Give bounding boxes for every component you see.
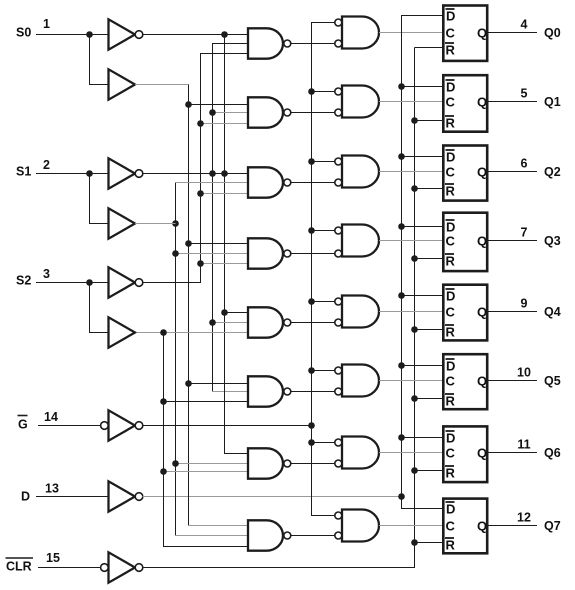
wire enable tap row 4: [312, 301, 335, 303]
node enable tap row 1: [308, 88, 315, 95]
wire D-bar bus top to row 0: [402, 16, 443, 497]
wire Q4 output (pin 9): [489, 311, 538, 313]
wire NAND0 output: [291, 43, 335, 45]
wire D-bar tap row 2: [402, 156, 443, 158]
node S2 junction: [86, 279, 93, 286]
latch Q5: [443, 354, 487, 409]
wire row4 NAND input 1: [213, 322, 249, 324]
svg-text:D: D: [21, 490, 30, 504]
wire R-bar tap row 3: [415, 258, 443, 260]
wire D-bar tap row 1: [402, 86, 443, 88]
svg-text:R: R: [446, 43, 456, 58]
wire S0 input: [36, 34, 109, 36]
wire D-bar tap row 4: [402, 295, 443, 297]
svg-text:Q7: Q7: [544, 519, 561, 533]
svg-text:S1: S1: [16, 165, 31, 179]
NAND gate row 4: [248, 307, 283, 337]
wire R-bar tap row 2: [415, 188, 443, 190]
svg-text:S2: S2: [16, 274, 31, 288]
svg-text:G: G: [18, 418, 28, 432]
wire D-bar bus bottom to row 7: [402, 497, 443, 509]
wire row3 NAND input 1: [176, 253, 249, 255]
wire enable tap row 3: [312, 230, 335, 232]
svg-text:R: R: [446, 184, 456, 199]
node enable tap row 5: [308, 367, 315, 374]
node S1 junction: [86, 170, 93, 177]
and-gate with inverted inputs, row 2: [342, 156, 379, 188]
node enable tap row 2: [308, 158, 315, 165]
wire enable tap row 2: [312, 161, 335, 163]
wire R-bar bus top to row 0: [415, 47, 443, 49]
node bus junction dots: [160, 329, 167, 336]
svg-text:D: D: [446, 9, 455, 24]
inverter S0: [109, 19, 136, 49]
wire CLR distribution: [142, 48, 414, 568]
wire Q2 output (pin 6): [489, 171, 538, 173]
NAND gate row 3: [248, 238, 283, 268]
svg-text:Q: Q: [477, 374, 487, 389]
latch Q1: [443, 75, 487, 132]
latch Q6: [443, 426, 487, 482]
svg-text:Q: Q: [477, 305, 487, 320]
node R-bar tap row 2: [411, 185, 418, 192]
wire R-bar tap row 6: [415, 470, 443, 472]
latch Q2: [443, 146, 487, 201]
node D-bar tap row 1: [398, 83, 405, 90]
svg-text:C: C: [446, 95, 456, 110]
wire G input: [38, 425, 101, 427]
wire Q1 output (pin 5): [489, 101, 538, 103]
svg-text:C: C: [446, 165, 456, 180]
svg-text:D: D: [446, 150, 455, 165]
svg-text:Q: Q: [477, 446, 487, 461]
wire C row 1: [379, 101, 442, 103]
wire CLR input: [38, 567, 101, 569]
wire row6 NAND input 1: [176, 463, 249, 465]
wire enable tap row 6: [312, 442, 335, 444]
node enable tap row 4: [308, 298, 315, 305]
svg-text:Q6: Q6: [544, 446, 561, 460]
inverter S2: [109, 267, 136, 297]
wire NAND3 output: [291, 253, 335, 255]
svg-text:C: C: [446, 374, 456, 389]
wire D-bar tap row 6: [402, 437, 443, 439]
svg-text:6: 6: [521, 157, 528, 171]
wire NAND4 output: [291, 322, 335, 324]
wire enable tap row 1: [312, 91, 335, 93]
svg-text:14: 14: [44, 410, 58, 424]
svg-text:C: C: [446, 26, 456, 41]
svg-text:Q3: Q3: [544, 234, 561, 248]
NAND gate row 7: [248, 520, 283, 550]
svg-text:5: 5: [521, 87, 528, 101]
svg-text:R: R: [446, 254, 456, 269]
node D-bar tap row 6: [398, 434, 405, 441]
wire S2 buffer output to row4: [137, 332, 249, 334]
node enable tap row 6: [308, 439, 315, 446]
svg-text:11: 11: [517, 438, 530, 452]
svg-text:S0: S0: [16, 26, 31, 40]
wire Q3 output (pin 7): [489, 240, 538, 242]
wire D-bar tap row 5: [402, 365, 443, 367]
wire NAND6 output: [291, 463, 335, 465]
wire row4 NAND input 0: [225, 312, 249, 314]
and-gate with inverted inputs, row 6: [342, 437, 379, 469]
wire D input: [36, 496, 109, 498]
wire S2 to buffer: [90, 283, 109, 333]
svg-text:CLR: CLR: [6, 560, 32, 574]
svg-text:Q: Q: [477, 26, 487, 41]
wire S0 to buffer: [90, 35, 109, 85]
node D junction on data bus: [398, 493, 405, 500]
svg-text:7: 7: [521, 226, 528, 240]
wire NAND7 output: [291, 535, 335, 537]
wire Q6 output (pin 11): [489, 452, 538, 454]
NAND gate row 5: [248, 376, 283, 406]
svg-text:15: 15: [46, 551, 60, 565]
wire R-bar tap row 4: [415, 329, 443, 331]
svg-text:D: D: [446, 431, 455, 446]
svg-text:12: 12: [517, 511, 531, 525]
NAND gate row 1: [248, 97, 283, 127]
wire row1 NAND input 1: [213, 112, 249, 114]
and-gate with inverted inputs, row 1: [342, 86, 379, 118]
wire row2 NAND input 1: [176, 182, 249, 184]
wire C row 3: [379, 240, 442, 242]
svg-text:D: D: [446, 80, 455, 95]
svg-text:C: C: [446, 519, 456, 534]
wire S0 bus bottom corner: [189, 525, 249, 527]
node G junction on enable bus: [308, 422, 315, 429]
node R-bar tap row 3: [411, 255, 418, 262]
buffer S1: [109, 208, 136, 238]
wire row5 NAND mid input: [213, 391, 249, 393]
svg-text:D: D: [446, 359, 455, 374]
latch Q3: [443, 213, 487, 271]
svg-text:2: 2: [43, 158, 50, 172]
wire C row 2: [379, 171, 442, 173]
wire D-bar tap row 3: [402, 226, 443, 228]
svg-text:9: 9: [521, 297, 528, 311]
node R-bar tap row 5: [411, 395, 418, 402]
wire D distribution: [142, 496, 401, 498]
NAND gate row 6: [248, 448, 283, 478]
wire R-bar tap row 7: [415, 542, 443, 544]
node D-bar tap row 3: [398, 223, 405, 230]
wire NS1 bus (S1 inverted): [213, 44, 249, 392]
wire S1 input: [36, 173, 109, 175]
node enable tap row 3: [308, 227, 315, 234]
wire row6 NAND input 2: [164, 471, 249, 473]
inverter CLR: [109, 552, 136, 582]
wire row2 NAND input 2: [201, 193, 249, 195]
wire row5 NAND input 2: [164, 401, 249, 403]
latch Q0: [443, 6, 487, 61]
wire Q0 output (pin 4): [489, 32, 538, 34]
latch Q7: [443, 499, 487, 554]
svg-text:C: C: [446, 446, 456, 461]
wire S0 bus vertical: [188, 85, 190, 526]
svg-text:10: 10: [517, 366, 531, 380]
wire row5 NAND input 0: [189, 383, 249, 385]
svg-text:D: D: [446, 289, 455, 304]
wire row3 NAND input 0: [189, 243, 249, 245]
svg-text:Q2: Q2: [544, 165, 561, 179]
and-gate with inverted inputs, row 3: [342, 225, 379, 257]
node D-bar tap row 4: [398, 292, 405, 299]
inverter S1: [109, 158, 136, 188]
svg-text:R: R: [446, 116, 456, 131]
svg-text:R: R: [446, 466, 456, 481]
wire row1 NAND input 2: [201, 123, 249, 125]
node R-bar tap row 6: [411, 467, 418, 474]
NAND gate row 0: [248, 28, 283, 58]
and-gate with inverted inputs, row 7: [342, 510, 379, 542]
node R-bar tap row 4: [411, 326, 418, 333]
svg-text:R: R: [446, 538, 456, 553]
buffer S2: [109, 317, 136, 347]
wire G distribution: [142, 425, 311, 427]
node R-bar tap row 1: [411, 117, 418, 124]
svg-text:C: C: [446, 234, 456, 249]
node S0 junction: [86, 31, 93, 38]
and-gate with inverted inputs, row 5: [342, 365, 379, 397]
svg-text:4: 4: [521, 18, 528, 32]
svg-text:Q5: Q5: [544, 374, 561, 388]
wire NS0 bus vertical: [225, 35, 249, 454]
svg-text:Q: Q: [477, 234, 487, 249]
wire C row 5: [379, 380, 442, 382]
svg-text:3: 3: [43, 267, 50, 281]
svg-text:Q1: Q1: [544, 95, 561, 109]
svg-text:1: 1: [43, 17, 50, 31]
wire enable tap row 5: [312, 370, 335, 372]
and-gate with inverted inputs, row 0: [342, 17, 379, 49]
svg-text:D: D: [446, 502, 455, 517]
node R-bar tap row 7: [411, 539, 418, 546]
wire C row 6: [379, 452, 442, 454]
wire R-bar tap row 5: [415, 398, 443, 400]
wire enable bus: [312, 23, 336, 516]
svg-text:Q: Q: [477, 165, 487, 180]
node D-bar tap row 2: [398, 153, 405, 160]
wire S2 input: [36, 282, 109, 284]
svg-text:Q: Q: [477, 519, 487, 534]
wire S1 buffer output: [135, 223, 176, 225]
and-gate with inverted inputs, row 4: [342, 296, 379, 328]
wire S0 buffer output: [135, 84, 189, 86]
buffer S0: [109, 69, 136, 99]
wire NAND2 output: [291, 182, 335, 184]
wire row3 NAND input 2: [201, 263, 249, 265]
wire Q7 output (pin 12): [489, 525, 538, 527]
wire row1 NAND input 0: [189, 104, 249, 106]
svg-text:D: D: [446, 220, 455, 235]
wire S1 bus vertical: [175, 183, 177, 536]
svg-text:C: C: [446, 305, 456, 320]
wire NAND1 output: [291, 112, 335, 114]
node D-bar tap row 5: [398, 362, 405, 369]
svg-text:Q: Q: [477, 95, 487, 110]
inverter D: [109, 481, 136, 511]
latch Q4: [443, 285, 487, 341]
wire S1 bus bottom corner: [176, 535, 249, 537]
wire S1 inverter output to row2: [142, 173, 248, 175]
wire Q5 output (pin 10): [489, 380, 538, 382]
svg-text:Q0: Q0: [544, 26, 561, 40]
svg-text:13: 13: [45, 482, 59, 496]
svg-text:Q4: Q4: [544, 305, 561, 319]
wire NAND5 output: [291, 391, 335, 393]
wire C row 0: [379, 32, 442, 34]
wire NS0 inverter output to row0: [142, 34, 248, 36]
wire R-bar tap row 1: [415, 120, 443, 122]
wire NS2 bus (S2 inverted): [142, 54, 248, 283]
wire S2 bus: [164, 333, 249, 547]
wire S1 bus top corner: [176, 182, 249, 184]
wire C row 4: [379, 311, 442, 313]
inverter G: [109, 410, 136, 440]
NAND gate row 2: [248, 167, 283, 197]
wire S1 to buffer: [90, 174, 109, 224]
svg-text:R: R: [446, 325, 456, 340]
wire C row 7: [379, 525, 442, 527]
svg-text:R: R: [446, 394, 456, 409]
